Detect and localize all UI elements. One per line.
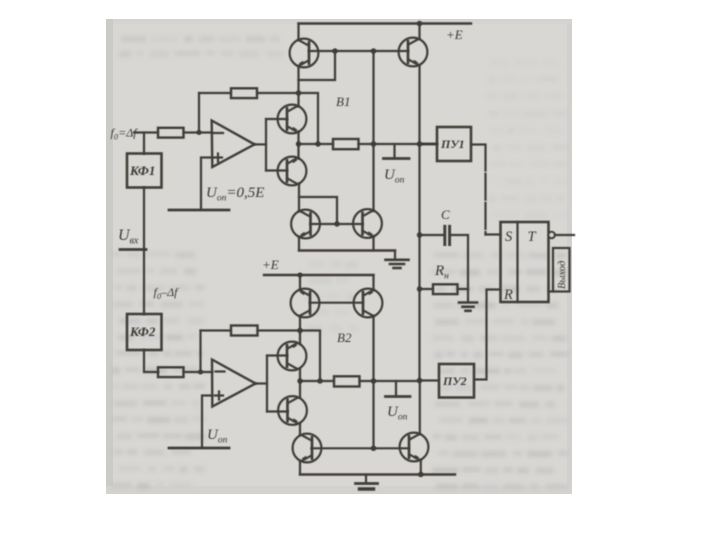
wire long vertical lower part to Q2p bbox=[419, 381, 421, 434]
wire base lower-mid ch1 bbox=[266, 169, 287, 171]
transistor VT9 upper-middle ch2 bbox=[278, 342, 307, 371]
wire long output vertical bbox=[418, 65, 420, 380]
wire Rn left bbox=[420, 288, 434, 290]
ground sym1 stem bbox=[394, 251, 396, 259]
resistor R6 output ch2 bbox=[334, 376, 360, 386]
svg-text:B2: B2 bbox=[337, 330, 352, 345]
transistor VT3 upper-middle ch1 bbox=[278, 105, 307, 134]
wire PU2 right up to R bbox=[474, 290, 501, 380]
wire loop to mirror base ch1 bbox=[299, 197, 337, 224]
wire feedback left ch1 bbox=[199, 92, 231, 94]
wire rail drop right ch2 bbox=[372, 275, 374, 290]
wire output link vertical ch2 bbox=[266, 356, 268, 412]
transistor VT10 lower-middle ch2 bbox=[278, 396, 307, 425]
transistor Q1 top-left bbox=[290, 39, 319, 68]
rail +E ch2 bbox=[264, 274, 374, 276]
capacitor C1 plates bbox=[445, 226, 450, 244]
box Vyhod bbox=[553, 248, 570, 292]
wire output ch1 left part bbox=[299, 143, 334, 145]
svg-text:ПУ2: ПУ2 bbox=[442, 374, 467, 388]
opamp U1 plus bbox=[214, 154, 222, 162]
transistor VT8 mirror-right ch2 bbox=[354, 289, 383, 318]
wire Q2 collector to rail bbox=[418, 24, 420, 39]
wire Rn right bbox=[458, 288, 469, 290]
wire opamp2 output bbox=[256, 382, 268, 384]
trigger box T bbox=[501, 222, 549, 302]
ground rail ch1 bbox=[299, 249, 395, 251]
wire S input bbox=[486, 233, 501, 235]
wire base lower-mid ch2 bbox=[267, 410, 288, 412]
wire output ch1 right part bbox=[359, 143, 438, 145]
terminal Uop bar ch2 bbox=[386, 395, 411, 398]
resistor R5 output ch1 bbox=[333, 139, 359, 149]
wire PU1 left bbox=[420, 143, 438, 145]
opamp U1 minus bbox=[214, 132, 223, 134]
svg-text:T: T bbox=[528, 229, 537, 245]
wire opamp2 plus input bbox=[202, 396, 212, 449]
wire opamp1 output bbox=[255, 143, 267, 145]
ground sym2 stem bbox=[467, 289, 469, 302]
wire mid chain ch1 bbox=[297, 132, 299, 159]
top rail +E bbox=[299, 22, 472, 24]
box KF1 bbox=[127, 154, 162, 188]
wire output ch2 left part bbox=[300, 380, 334, 382]
resistor R3 feedback ch1 bbox=[231, 88, 257, 98]
terminal bar U_vx bbox=[120, 248, 146, 251]
wire mirror2-right drop to base line bottom bbox=[372, 316, 374, 448]
bottom rail bbox=[300, 473, 455, 475]
wire feedback right ch2 bbox=[258, 331, 321, 382]
transistor VT7 mirror-left ch2 bbox=[291, 289, 320, 318]
svg-text:КФ2: КФ2 bbox=[129, 324, 156, 339]
opamp U2 plus bbox=[215, 392, 223, 400]
ground sym1 bars bbox=[386, 258, 409, 261]
terminal Uop tick ch2 bbox=[395, 381, 397, 395]
wire top rail lead Q1 bbox=[297, 24, 299, 40]
wire Vyhod link bbox=[549, 290, 554, 292]
wire base line top pair bbox=[309, 50, 408, 52]
wire mirror2-left emitter chain bbox=[299, 316, 301, 344]
wire right mirror emitter to rail ch1 bbox=[372, 236, 374, 250]
wire input label stub ch1 bbox=[134, 131, 158, 133]
svg-text:C: C bbox=[441, 207, 450, 222]
opamp U1 triangle bbox=[212, 121, 255, 168]
scanned paper area bbox=[106, 19, 572, 494]
terminal Uop tick ch1 bbox=[393, 144, 395, 157]
svg-text:Uоп=0,5E: Uоп=0,5E bbox=[206, 185, 264, 204]
transistor Q2 top-right bbox=[399, 38, 428, 67]
wire R2 to opamp2 bbox=[184, 371, 213, 373]
ground sym2 bars bbox=[459, 301, 477, 304]
capacitor C1 right wire bbox=[451, 235, 468, 289]
wire base line mirror ch1 bbox=[311, 223, 363, 225]
wire output ch2 right part bbox=[360, 380, 420, 382]
wire KF2 down and right to R2 bbox=[144, 350, 158, 372]
transistor Q4 bottom-right ch2 bbox=[400, 433, 429, 462]
wire Q1 loop to base line bbox=[299, 51, 336, 80]
wire mid chain ch2 bbox=[299, 369, 301, 397]
wire Q3 emitter to rail bbox=[299, 461, 301, 474]
opamp U2 minus bbox=[216, 370, 225, 372]
wire feedback right ch1 bbox=[257, 93, 318, 144]
svg-text:S: S bbox=[505, 229, 513, 245]
svg-text:+E: +E bbox=[262, 257, 279, 272]
svg-text:B1: B1 bbox=[336, 94, 350, 109]
transistor Q3 bottom-left ch2 bbox=[293, 434, 322, 463]
junction dots bbox=[332, 48, 337, 53]
terminal bar Uop opamp1 bbox=[169, 209, 229, 212]
wire drop to KF1 bbox=[143, 133, 145, 154]
resistor R2 input ch2 bbox=[158, 367, 184, 377]
wire base upper-mid ch1 bbox=[266, 118, 287, 120]
svg-text:R: R bbox=[503, 287, 513, 303]
wire opamp1 plus input bbox=[201, 158, 211, 211]
wire emitter chain left ch1 bbox=[297, 66, 299, 106]
wire feedback tap ch2 bbox=[199, 331, 201, 373]
wire PU2 left bbox=[420, 379, 440, 381]
svg-text:Выход: Выход bbox=[557, 261, 568, 289]
wire mirror left emitter to rail ch1 bbox=[298, 237, 300, 251]
terminal Uop bar ch1 bbox=[384, 157, 410, 160]
wire lower-mid emitter down ch1 bbox=[298, 184, 300, 212]
box PU2 bbox=[439, 364, 474, 398]
wire feedback left ch2 bbox=[201, 329, 232, 331]
wire base line bottom pair bbox=[312, 447, 409, 449]
wire R1 to opamp1 minus bbox=[184, 131, 212, 133]
wire Q4 emitter to rail bbox=[420, 460, 422, 475]
svg-text:КФ1: КФ1 bbox=[129, 163, 155, 178]
wire output link vertical ch1 bbox=[265, 119, 267, 171]
ground sym3 stem bbox=[365, 475, 367, 483]
bleed-through ghost text bbox=[112, 252, 568, 490]
resistor R4 feedback ch2 bbox=[231, 326, 258, 336]
svg-text:ПУ1: ПУ1 bbox=[440, 137, 465, 151]
wire trigger output bbox=[555, 234, 574, 236]
resistor R1 input ch1 bbox=[158, 128, 184, 138]
wire PU1 right to S (dashed scan) bbox=[471, 145, 486, 235]
wire base line mirror ch2 bbox=[310, 302, 363, 304]
transistor VT5 mirror-left ch1 bbox=[291, 210, 320, 239]
terminal bar Uop opamp2 bbox=[169, 447, 229, 450]
trigger divider bbox=[516, 222, 518, 302]
transistor VT6 mirror-right ch1 bbox=[353, 209, 382, 238]
wire rail drop left ch2 bbox=[299, 275, 301, 290]
wire base upper-mid ch2 bbox=[267, 354, 287, 356]
wire feedback tap ch1 bbox=[198, 93, 200, 133]
ground sym3 bars bbox=[356, 482, 378, 485]
wire U_vx line KF1 to KF2 bbox=[143, 188, 145, 315]
wire long collector drop right mirror ch1 bbox=[372, 51, 374, 211]
svg-text:+E: +E bbox=[446, 27, 463, 42]
box KF2 bbox=[127, 314, 162, 350]
wire lower-mid to Q3 ch2 bbox=[299, 424, 301, 435]
box PU1 bbox=[437, 127, 471, 161]
transistor VT4 lower-middle ch1 bbox=[278, 157, 307, 186]
trigger output inversion circle bbox=[548, 232, 554, 238]
opamp U2 triangle bbox=[212, 360, 256, 407]
resistor Rn bbox=[433, 284, 458, 294]
capacitor C1 left wire bbox=[420, 234, 444, 236]
